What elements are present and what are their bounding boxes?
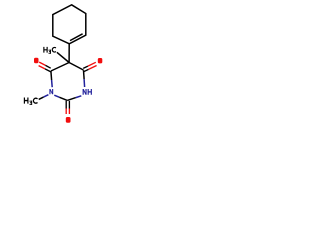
bond N1-C2 (black half) xyxy=(60,97,68,100)
cyclohexene ring xyxy=(53,5,86,44)
C4=O double bond right: line 1 black half xyxy=(83,66,88,68)
O atom left (solid red glyph) xyxy=(34,58,39,63)
bond C4-N3 (blue half) xyxy=(83,79,86,87)
bond C2-N3 (blue half) xyxy=(76,96,82,98)
N3 label: letter N xyxy=(83,89,87,95)
bottom methyl label: letter C xyxy=(33,98,37,103)
bond N1-CH3 bottom methyl (black half) xyxy=(39,97,44,99)
top methyl label: letter C xyxy=(52,48,56,53)
N3 label: letter H xyxy=(88,89,92,95)
C4=O double bond right: line 1 red half xyxy=(88,62,96,66)
top methyl label: subscript 3 xyxy=(49,50,52,54)
bond C2-N3 (black half) xyxy=(67,98,76,101)
bottom methyl label: subscript 3 xyxy=(30,101,33,105)
C2=O double bond bottom: left line black half xyxy=(65,101,67,109)
C2=O double bond bottom: right line red half xyxy=(68,109,70,115)
bond C5-C4 xyxy=(69,63,83,71)
bond C4-N3 (black half) xyxy=(83,70,86,79)
bond C5-C6 xyxy=(51,63,69,72)
C2=O double bond bottom: left line red half xyxy=(65,109,67,115)
C6=O double bond left: line 1 red half xyxy=(39,62,45,65)
bond N1-C2 (blue half) xyxy=(54,95,59,97)
C2=O double bond bottom: right line black half xyxy=(68,101,70,109)
O atom right (solid red glyph) xyxy=(98,58,103,63)
chemical structure: hexobarbital (5-(cyclohex-1-en-1-yl)-1,5-dimethylbarbituric acid) xyxy=(0,0,130,130)
C6=O double bond left: line 2 red half xyxy=(39,66,45,69)
C6=O double bond left: line 2 black half xyxy=(45,69,51,72)
top methyl label: letter H xyxy=(43,47,47,53)
bond C5-CH3 (top methyl) xyxy=(57,52,69,62)
O atom bottom (solid red glyph) xyxy=(66,117,71,123)
C4=O double bond right: line 2 black half xyxy=(84,69,89,71)
bond C6-N1 (black half) xyxy=(50,71,53,80)
bond C1'-C5 xyxy=(68,44,70,63)
bond C6-N1 (blue half) xyxy=(51,80,54,87)
cyclohexene C1'=C2' double bond inner line xyxy=(70,34,83,41)
C4=O double bond right: line 2 red half xyxy=(89,66,97,70)
bottom methyl label: letter H xyxy=(24,98,29,104)
C6=O double bond left: line 1 black half xyxy=(46,65,51,68)
bond N1-CH3 bottom methyl (blue half) xyxy=(44,95,49,97)
N1 label (letter N) xyxy=(49,89,53,94)
